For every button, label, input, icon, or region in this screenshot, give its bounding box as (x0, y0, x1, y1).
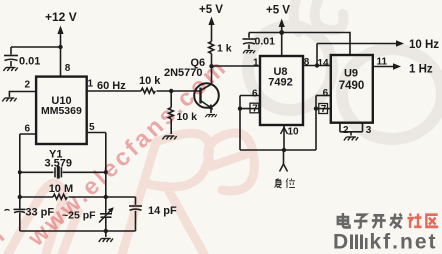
svg-text:11: 11 (377, 57, 388, 68)
svg-text:6: 6 (323, 88, 329, 99)
svg-text:14 pF: 14 pF (148, 205, 177, 217)
svg-text:7490: 7490 (339, 80, 365, 92)
svg-text:1: 1 (88, 79, 94, 90)
svg-text:7: 7 (252, 103, 258, 114)
svg-text:0.01: 0.01 (19, 56, 40, 68)
svg-text:10 k: 10 k (177, 111, 198, 123)
svg-text:10 k: 10 k (139, 75, 161, 87)
svg-text:1 k: 1 k (217, 43, 232, 55)
svg-text:10 Hz: 10 Hz (409, 39, 439, 51)
svg-text:D: D (333, 231, 348, 254)
svg-text:~25 pF: ~25 pF (62, 210, 96, 222)
svg-text:8: 8 (304, 57, 310, 68)
svg-text:60 Hz: 60 Hz (97, 80, 126, 92)
svg-text:14: 14 (318, 58, 330, 69)
svg-text:10 M: 10 M (49, 183, 73, 195)
svg-text:3: 3 (366, 125, 372, 136)
svg-text:2N5770: 2N5770 (164, 67, 203, 79)
svg-text:8: 8 (65, 63, 71, 74)
svg-text:+5 V: +5 V (199, 4, 223, 16)
svg-text:0.01: 0.01 (255, 36, 276, 48)
svg-text:33 pF: 33 pF (25, 207, 54, 219)
svg-text:7: 7 (321, 104, 327, 115)
svg-text:2: 2 (343, 125, 349, 136)
svg-text:+5 V: +5 V (266, 5, 290, 17)
svg-text:5: 5 (89, 122, 95, 133)
svg-text:3.579: 3.579 (45, 158, 73, 170)
svg-text:kf.net: kf.net (370, 231, 438, 254)
svg-text:6: 6 (25, 124, 31, 135)
svg-text:10: 10 (288, 127, 300, 138)
svg-text:MM5369: MM5369 (41, 105, 82, 117)
svg-text:U9: U9 (344, 68, 358, 80)
svg-text:1: 1 (253, 58, 259, 69)
svg-text:7492: 7492 (268, 77, 292, 89)
svg-text:6: 6 (252, 89, 258, 100)
svg-text:1 Hz: 1 Hz (409, 64, 433, 76)
svg-text:2: 2 (25, 80, 31, 91)
svg-text:+12 V: +12 V (45, 10, 77, 24)
